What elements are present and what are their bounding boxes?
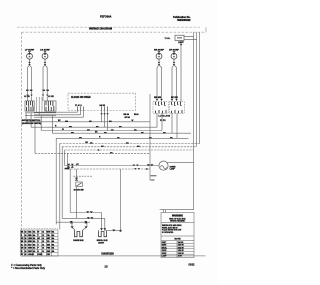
junction row 150: [98, 149, 100, 151]
wire box drop 2: [80, 111, 82, 115]
svg-text:DOOR SW: DOOR SW: [74, 189, 84, 191]
wire box drop 1: [77, 111, 79, 113]
wire P3 split leads: [157, 65, 162, 101]
svg-text:SURF: SURF: [162, 253, 167, 255]
svg-text:OR: OR: [85, 142, 88, 144]
oven lamp: [159, 161, 168, 170]
svg-text:03/02: 03/02: [189, 264, 196, 267]
svg-text:RF SW: RF SW: [171, 97, 178, 99]
svg-text:WIRING DIAGRAM: WIRING DIAGRAM: [89, 27, 113, 31]
stub label right of 150 lower: [151, 179, 155, 181]
bus row y138.3: [56, 137, 188, 139]
svg-text:WHT: WHT: [28, 251, 32, 253]
wire right vertical 193.6: [193, 32, 195, 210]
wire box drop 4: [101, 111, 103, 122]
wire sw stub 172: [171, 113, 173, 133]
wire P2 stem: [44, 59, 46, 62]
thermal limiter TOD box: [175, 35, 184, 40]
wire leads into SW1: [28, 96, 48, 101]
svg-text:16: 16: [25, 248, 27, 250]
oven lamp row: [65, 165, 159, 167]
svg-text:40 W: 40 W: [178, 256, 182, 258]
bake lead right: [82, 222, 87, 230]
connector P2: [44, 62, 47, 65]
bus row y143.5: [60, 143, 200, 145]
door switch drop: [76, 169, 78, 178]
legend table grid: [21, 230, 59, 256]
wire ladder vertical 56.2: [55, 138, 57, 224]
oven control dashed box: [68, 93, 136, 110]
svg-text:BA BR: BA BR: [100, 104, 106, 107]
svg-text:14: 14: [25, 243, 27, 246]
svg-text:P1 N L1: P1 N L1: [75, 105, 82, 107]
notes paragraph: [162, 224, 182, 234]
door switch connector: [75, 178, 78, 181]
oven control terminal ticks: [78, 107, 108, 111]
svg-text:BROIL: BROIL: [162, 247, 167, 249]
svg-text:S: S: [38, 251, 39, 253]
connector P1: [28, 62, 31, 65]
svg-text:NOTE: NOTE: [174, 239, 181, 241]
svg-text:YEL: YEL: [47, 235, 50, 237]
svg-text:CHT: CHT: [47, 254, 50, 256]
svg-text:BAKE ELE: BAKE ELE: [73, 239, 84, 242]
notes sub table: [176, 241, 178, 258]
svg-text:16: 16: [25, 241, 27, 243]
surface unit P3: [156, 53, 162, 59]
light switch connectors near lamp: [147, 164, 154, 166]
wire label box drop: [34, 124, 36, 153]
svg-text:(SURFACE UNITS): (SURFACE UNITS): [22, 122, 41, 125]
wire box drop 6: [107, 111, 109, 131]
wire cluster drop a: [25, 113, 27, 122]
surface unit P1: [27, 53, 33, 59]
infinite switch SW1 box: [25, 101, 34, 111]
connector pair bake right: [84, 221, 87, 223]
header rule: [17, 26, 200, 28]
connector row 212.5: [86, 211, 93, 213]
svg-text:14: 14: [25, 231, 27, 234]
wire ladder vertical 64.6: [64, 150, 66, 166]
svg-text:12: 12: [42, 235, 44, 237]
lead code labels above cluster: [26, 90, 49, 91]
svg-text:BL: BL: [21, 244, 23, 246]
bus row y133.2: [52, 132, 191, 134]
svg-text:PART: PART: [162, 241, 166, 244]
bus row y150: [65, 149, 194, 151]
svg-text:CLOCK ON OVEN: CLOCK ON OVEN: [71, 97, 91, 99]
svg-text:14: 14: [42, 250, 44, 253]
svg-text:16: 16: [42, 238, 44, 240]
wire P2 split leads: [43, 65, 47, 95]
svg-text:* = Non-Illuminated Parts: * = Non-Illuminated Parts Only: [11, 267, 45, 270]
connector row 218.4: [87, 217, 94, 219]
infinite switch SW2 box: [45, 101, 57, 111]
surface unit P4: [171, 53, 177, 59]
wire code on row 169: [65, 168, 70, 170]
wire ladder vertical 70.2: [69, 169, 71, 213]
wire P3 stem: [158, 59, 160, 62]
wire ladder vertical 62.2: [61, 147, 63, 219]
wire neutral vertical at 150: [149, 94, 151, 180]
svg-text:16: 16: [25, 254, 27, 256]
svg-text:P1 P2: P1 P2: [160, 120, 166, 122]
wire ladder vertical 59.8: [59, 144, 61, 230]
row y212.5: [70, 212, 101, 214]
diagram frame top border: [22, 31, 206, 33]
diagram frame bottom border: [22, 255, 206, 257]
connector drop4: [100, 113, 103, 115]
wire cluster drop b: [30, 113, 32, 127]
bus row y121.8: [26, 121, 150, 123]
bus row y112.2: [34, 111, 78, 113]
wire sw stub 162: [161, 113, 163, 130]
wire drops into terminal table: [164, 210, 166, 213]
wire right vertical 196.7: [196, 32, 198, 147]
surface switch SW3 box: [153, 102, 168, 114]
broil element: [99, 231, 107, 237]
connector P3: [158, 62, 161, 65]
broil lead left: [101, 213, 103, 231]
surface unit P2 terminal: [44, 51, 47, 53]
connector pair bake left: [70, 221, 73, 223]
svg-text:3400W: 3400W: [98, 242, 104, 244]
svg-text:18: 18: [42, 241, 44, 243]
svg-text:RR SURF: RR SURF: [154, 49, 164, 51]
surface unit P4 terminal: [173, 51, 176, 53]
wire right corner to terminal area: [160, 209, 194, 211]
svg-text:5995268292: 5995268292: [177, 19, 191, 22]
svg-text:14: 14: [25, 250, 27, 253]
wire box drop 3: [83, 111, 85, 118]
wire cluster drop d: [51, 116, 53, 134]
svg-text:T.O.D.: T.O.D.: [165, 38, 171, 40]
connector cluster at lamp row left: [67, 164, 74, 168]
bake lead left: [72, 222, 75, 230]
svg-text:3000 W: 3000 W: [178, 247, 184, 249]
connector near junction: [112, 230, 115, 232]
wire box drop 5: [104, 111, 106, 128]
wire cluster mid verticals: [36, 97, 42, 116]
connector drop6: [106, 113, 109, 115]
svg-text:VALUE: VALUE: [178, 241, 184, 244]
connectors at SW3 SW4 tops: [156, 99, 178, 101]
svg-text:WHT: WHT: [47, 232, 51, 234]
wire sw stub 157: [156, 113, 158, 127]
wire junction to broil: [105, 230, 121, 232]
surface unit P3 terminal: [158, 51, 161, 53]
svg-text:RR SW: RR SW: [154, 97, 161, 99]
svg-text:2100 W: 2100 W: [178, 253, 184, 255]
svg-text:IS OPERATED: IS OPERATED: [162, 231, 174, 234]
svg-text:T: T: [38, 244, 39, 246]
svg-text:L1 H1 L2 H2: L1 H1 L2 H2: [159, 115, 171, 117]
svg-text:LAMP: LAMP: [170, 168, 176, 171]
row y169: [67, 168, 150, 170]
bus row y130.5: [41, 130, 162, 132]
wire door switch down: [76, 187, 78, 219]
wire vertical 120.5: [120, 169, 122, 231]
row y222.2: [56, 221, 90, 223]
svg-text:COLOR: COLOR: [28, 254, 35, 256]
svg-text:1250 W: 1250 W: [178, 250, 184, 252]
bake terminals: [71, 226, 88, 228]
door switch box: [76, 182, 83, 187]
bus below switches 1: [25, 112, 56, 114]
svg-text:FEF336A: FEF336A: [100, 15, 112, 19]
wire P1 stem: [29, 59, 31, 62]
connector drop5: [103, 113, 106, 115]
diagram frame left border: [21, 32, 23, 256]
bus row y127.2: [31, 126, 157, 128]
junction row 169: [146, 168, 148, 170]
bus row y117.2: [34, 116, 84, 118]
svg-text:14: 14: [25, 234, 27, 237]
bake element: [74, 231, 82, 237]
svg-text:16: 16: [42, 248, 44, 250]
bus row y153.3: [35, 152, 150, 154]
wire TOD to right verticals: [184, 37, 197, 40]
svg-text:GY-16: GY-16: [125, 117, 130, 119]
svg-text:2350 W: 2350 W: [178, 245, 184, 247]
wire right vertical 199.7: [199, 32, 201, 143]
wire code dashes on bus rows: [65, 121, 173, 154]
row y218.4: [62, 217, 105, 219]
legend table text: [21, 231, 55, 256]
junction at 120.5: [119, 230, 121, 232]
svg-text:SURF: SURF: [162, 250, 167, 252]
svg-text:316253220: 316253220: [101, 252, 114, 255]
svg-text:W: W: [62, 129, 64, 131]
wire ladder vertical 67.4: [66, 153, 68, 169]
connector on light row: [133, 165, 139, 167]
oven lamp right lead: [167, 161, 194, 163]
wire P1 split leads: [28, 65, 32, 95]
connector P4: [173, 62, 176, 65]
svg-text:WARNING: WARNING: [172, 215, 183, 218]
broil terminals: [100, 228, 106, 230]
wire P4 stem: [173, 59, 175, 62]
svg-text:14: 14: [42, 231, 44, 234]
svg-text:LF SURF: LF SURF: [25, 49, 35, 51]
bus row y146.8: [62, 146, 197, 148]
bus row y114.8: [34, 114, 81, 116]
svg-text:CODE: CODE: [38, 254, 43, 256]
broil lead right: [104, 218, 106, 230]
connector row 169: [134, 168, 140, 170]
notes table box: [161, 213, 194, 258]
svg-text:LR SURF: LR SURF: [40, 49, 50, 51]
wire sw stub 177: [176, 113, 178, 138]
svg-text:W: W: [132, 120, 134, 122]
connector pair left cluster: [26, 95, 48, 97]
door switch row: [73, 175, 92, 177]
wire TOD down to SW4: [180, 41, 182, 102]
connector below TOD: [180, 44, 183, 46]
svg-text:L2 H2: L2 H2: [48, 96, 55, 98]
svg-text:13: 13: [104, 264, 108, 268]
corner jog top right: [205, 27, 207, 32]
bus below switches 2: [25, 115, 56, 117]
wire P4 split leads: [172, 65, 177, 101]
dashed segment above legend table: [21, 227, 59, 229]
svg-text:16: 16: [25, 238, 27, 240]
wire cluster drop c: [40, 116, 42, 131]
surface switch SW4 box: [169, 102, 184, 114]
surface unit P2: [42, 53, 48, 59]
svg-text:W-14: W-14: [134, 113, 139, 116]
surface unit P1 terminal: [28, 51, 31, 53]
svg-text:BK-14: BK-14: [124, 113, 130, 116]
stub label right of 150 upper: [151, 175, 157, 177]
svg-text:14: 14: [42, 243, 44, 246]
svg-text:RF SURF: RF SURF: [169, 49, 179, 51]
